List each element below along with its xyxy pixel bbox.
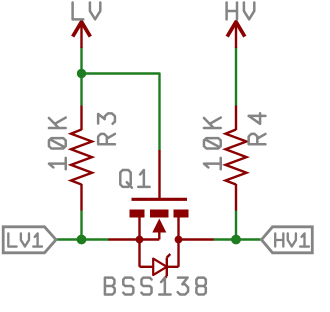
wire HV supply to R4 top (net HV) [235, 47, 237, 106]
label LV1 [8, 233, 42, 246]
wire gate branch from node A to Q1 gate [82, 74, 160, 151]
connector HV1 flag [262, 227, 313, 253]
wire R4 bottom to node C [235, 211, 237, 241]
node A junction dot [77, 69, 86, 78]
wire LV1 to Q1 source (net LV_IO) [55, 238, 109, 240]
name R4 [249, 113, 266, 144]
label HV [227, 3, 255, 20]
wire R3 bottom to node B [80, 211, 82, 241]
node B junction dot [77, 235, 87, 245]
value 10K of R3 [49, 118, 66, 170]
wire Q1 drain to HV1 (net HV_IO) [213, 238, 262, 240]
label HV1 [275, 233, 309, 246]
name R3 [98, 113, 115, 144]
transistor Q1 (N-MOSFET with body diode) [109, 150, 214, 280]
resistor R4 [226, 106, 247, 211]
supply symbol LV arrow [73, 22, 91, 49]
name Q1 [120, 170, 149, 188]
resistor R3 [71, 106, 92, 211]
connector LV1 flag [3, 227, 56, 253]
label LV [73, 3, 101, 20]
supply symbol HV arrow [227, 22, 245, 49]
node C junction dot [231, 235, 241, 245]
value BSS138 [105, 278, 206, 295]
wire LV supply to R3 top (net LV) [80, 47, 82, 106]
value 10K of R4 [204, 118, 221, 170]
